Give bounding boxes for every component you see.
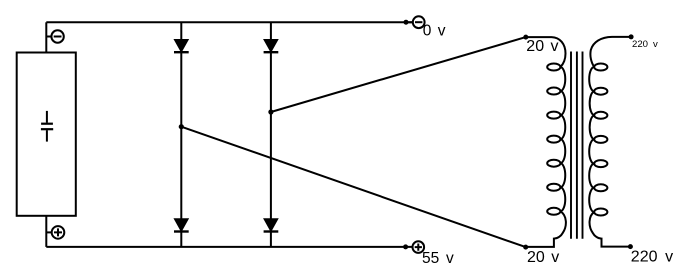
diode D3 bottom left: [174, 219, 189, 232]
terminal 0v tick: [406, 21, 413, 23]
terminal 0v circle minus: [413, 16, 425, 28]
node dot 0v rail end: [404, 20, 409, 25]
node dot transformer secondary bottom: [628, 244, 633, 249]
svg-text:20 v: 20 v: [526, 38, 558, 55]
svg-text:220 v: 220 v: [631, 248, 673, 265]
node dot 55v rail end: [403, 244, 408, 249]
terminal plus on box circle: [52, 226, 65, 239]
wire diagonal from branch 1 junction to transformer bottom left: [181, 127, 525, 247]
diode D2 top right: [264, 40, 279, 53]
svg-text:55 v: 55 v: [422, 250, 454, 267]
terminal plus on box sign: [54, 228, 62, 236]
diode D4 bottom right: [264, 219, 279, 232]
node dot branch 1 junction: [179, 124, 184, 129]
terminal 55v plus sign: [415, 244, 422, 251]
node dot transformer primary top: [523, 35, 528, 40]
diode D1 top left: [174, 40, 189, 53]
wire diode branch 1 vertical: [180, 22, 182, 247]
transformer T1 core lines: [571, 52, 583, 239]
wire bottom rail: [46, 246, 412, 248]
terminal 55v circle plus: [413, 241, 425, 253]
capacitor C1 top plate: [41, 123, 53, 125]
wire top rail: [46, 21, 412, 23]
transformer T1 secondary winding (right): [589, 37, 631, 247]
svg-text:0 v: 0 v: [423, 23, 446, 40]
transformer T1 primary winding (left): [526, 37, 566, 247]
svg-text:220 v: 220 v: [632, 39, 658, 50]
wire diode branch 2 vertical: [270, 22, 272, 247]
wire left vertical top (box to top rail): [45, 22, 47, 52]
capacitor C1 top lead: [46, 111, 48, 123]
terminal 0v minus sign: [415, 21, 422, 23]
terminal plus on box tick: [46, 231, 51, 233]
node dot branch 2 junction: [268, 109, 273, 114]
node dot transformer primary bottom: [523, 245, 528, 250]
wire diagonal from branch 2 junction to transformer top left: [271, 37, 526, 112]
capacitor C1 bottom plate: [41, 128, 53, 130]
terminal minus on box sign: [54, 36, 62, 38]
capacitor C1 bottom lead: [46, 130, 48, 141]
capacitor C1 box: [17, 53, 76, 216]
svg-text:20 v: 20 v: [527, 249, 559, 266]
node dot transformer secondary top: [629, 34, 634, 39]
terminal minus on box tick: [46, 36, 51, 38]
terminal minus on box circle: [51, 30, 63, 42]
wire left vertical bottom (box to bottom rail): [45, 216, 47, 247]
